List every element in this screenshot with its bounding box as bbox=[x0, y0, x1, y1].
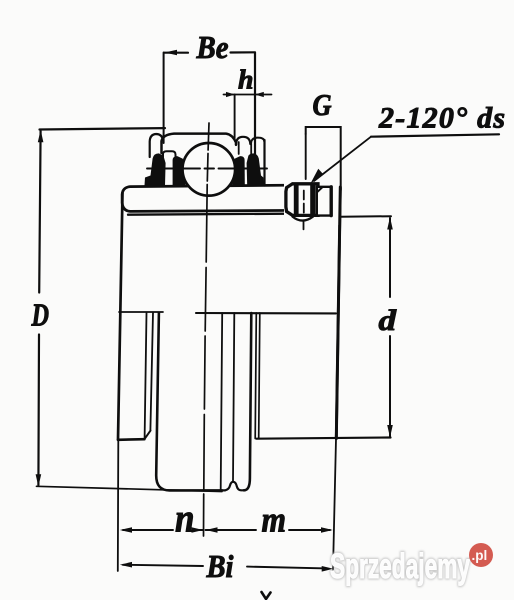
d arrow bottom bbox=[387, 425, 393, 438]
outer ring bottom step right with d extension bbox=[257, 438, 391, 439]
d top extension bbox=[341, 215, 392, 218]
band right edge over screw region bbox=[336, 187, 340, 439]
seal right blob B bbox=[232, 156, 245, 185]
set screw tip right edge bbox=[330, 187, 333, 216]
d arrow top bbox=[387, 217, 393, 230]
inner ring top-left bump bbox=[150, 134, 163, 157]
inner ring top-right bump B bbox=[251, 138, 264, 144]
D bottom extension bbox=[37, 486, 223, 491]
Be left extension bbox=[163, 53, 165, 144]
svg-text:2-120° ds: 2-120° ds bbox=[378, 102, 505, 135]
seal left blob A bbox=[145, 153, 166, 185]
m dimension line bbox=[206, 529, 331, 531]
inner sleeve wall left outer bbox=[145, 313, 147, 439]
Be dimension line bbox=[164, 51, 255, 54]
svg-text:d: d bbox=[379, 304, 398, 337]
svg-text:Bi: Bi bbox=[206, 548, 234, 584]
svg-text:Be: Be bbox=[196, 29, 229, 65]
set screw inner face bar right bbox=[310, 185, 315, 214]
Be right corner extension bbox=[254, 53, 256, 155]
G left extension bbox=[305, 134, 307, 179]
D arrow bottom bbox=[36, 474, 42, 487]
top-right vertical edge 1 bbox=[238, 142, 240, 154]
Bi arrow left bbox=[120, 562, 132, 568]
set screw bottom dip bbox=[293, 217, 314, 221]
h arrow left bbox=[226, 92, 235, 97]
n arrow right bbox=[192, 527, 204, 533]
outer ring right edge bbox=[336, 188, 340, 439]
svg-text:h: h bbox=[238, 65, 254, 95]
set screw tip chamfer bbox=[317, 187, 322, 192]
sleeve right edge with round bottom bbox=[244, 313, 251, 490]
main vertical center line bbox=[204, 123, 210, 536]
Be arrow bbox=[165, 50, 178, 56]
red pl badge bbox=[469, 543, 493, 567]
left extension line for n and Bi bbox=[117, 441, 120, 571]
Bi dimension line bbox=[123, 565, 327, 569]
set screw center dashes bbox=[303, 191, 305, 230]
svg-text:Sprzedajemy: Sprzedajemy bbox=[330, 547, 470, 586]
D top extension bbox=[40, 128, 166, 129]
set screw hex outline bbox=[286, 184, 318, 216]
D dimension line bbox=[38, 131, 40, 485]
seal right blob A bbox=[247, 153, 264, 185]
outer ring bottom step left bbox=[118, 438, 144, 441]
leader line bbox=[314, 137, 371, 181]
G bracket bbox=[306, 127, 341, 190]
sleeve inner line right 4 bbox=[259, 313, 260, 439]
chamfer left bbox=[144, 431, 150, 440]
bore shoulder line right bbox=[196, 312, 336, 314]
m arrow right bbox=[321, 527, 333, 533]
d dimension line bbox=[389, 218, 391, 437]
leader arrowhead bbox=[311, 169, 324, 184]
bearing outer band (inner ring collar) bbox=[122, 185, 330, 212]
set screw tip rectangle bbox=[317, 187, 331, 216]
Bi arrow right bbox=[322, 566, 334, 572]
svg-text:n: n bbox=[175, 496, 195, 541]
m arrow left bbox=[206, 527, 218, 533]
n arrow left bbox=[120, 527, 132, 533]
set screw white backing bbox=[284, 181, 340, 225]
h left extension bbox=[234, 95, 236, 139]
svg-text:D: D bbox=[31, 297, 49, 333]
inner ring right shoulder edge bbox=[263, 140, 265, 186]
sleeve inner line right 3 bbox=[255, 313, 256, 439]
inner ring top-left ledge bbox=[163, 151, 176, 158]
bore shoulder line bbox=[119, 311, 163, 313]
seal left blob B bbox=[173, 156, 186, 185]
sleeve inner line right 1 bbox=[221, 313, 223, 489]
inner ring top-right bump A bbox=[236, 137, 250, 145]
set screw inner face bar left bbox=[294, 185, 299, 214]
h dimension line bbox=[224, 94, 272, 96]
svg-text:m: m bbox=[262, 500, 287, 540]
inner sleeve wall left 2 bbox=[150, 313, 153, 430]
sleeve bottom bump bbox=[222, 482, 244, 491]
svg-text:G: G bbox=[313, 87, 333, 122]
ball crosshair horizontal bbox=[147, 168, 267, 170]
top-right vertical edge 2 bbox=[250, 144, 252, 157]
leader underline for 2-120 ds bbox=[371, 134, 499, 136]
outer ring cap dome bbox=[162, 134, 237, 153]
sleeve inner line right 2 bbox=[233, 313, 234, 482]
outer ring left edge bbox=[118, 193, 123, 440]
outer ring top edge bbox=[128, 213, 336, 214]
D arrow top bbox=[38, 130, 44, 143]
right extension line for m and Bi bbox=[333, 439, 336, 570]
h arrow right bbox=[255, 92, 264, 97]
n dimension line bbox=[123, 529, 203, 531]
ball bbox=[183, 143, 236, 196]
svg-text:.pl: .pl bbox=[472, 548, 488, 563]
bottom center mark bbox=[262, 592, 271, 599]
inner sleeve left edge with round bottom bbox=[156, 313, 222, 490]
